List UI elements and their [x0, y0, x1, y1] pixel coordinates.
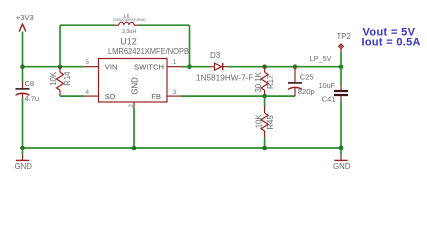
svg-text:R17: R17: [266, 75, 275, 89]
wire: output net y=66.5 from diode to right: [228, 66, 342, 68]
svg-text:4.7u: 4.7u: [25, 94, 40, 103]
label 10K value R14: [49, 71, 58, 86]
svg-text:C41: C41: [322, 94, 336, 103]
node junction at (60,66.5): [58, 64, 63, 69]
wire: C41 to ground rail: [340, 101, 342, 148]
pin GND stub pin 2: [133, 102, 135, 108]
wire: left vertical below C8 to ground rail: [22, 99, 24, 149]
svg-text:1: 1: [173, 59, 177, 66]
capacitor C25: [288, 67, 302, 96]
svg-text:R14: R14: [63, 71, 72, 86]
svg-text:C25: C25: [300, 73, 314, 82]
node junction at (264.6,96): [262, 94, 267, 99]
wire: vertical x=190 from top net to switch node: [189, 25, 191, 66]
svg-text:10K: 10K: [49, 71, 58, 86]
wire: ground rail y=148: [23, 147, 342, 149]
wire: output node down to C41: [340, 67, 342, 86]
resistor R17: [261, 67, 268, 96]
node junction at (134,148): [132, 146, 137, 151]
node junction at (264.6,66.5): [262, 64, 267, 69]
node junction at (22.5,148): [20, 146, 25, 151]
label R14: [63, 71, 72, 86]
svg-text:FB: FB: [151, 92, 161, 101]
pin VIN stub pin 5: [83, 66, 98, 68]
wire: switch node to junction: [181, 66, 210, 68]
svg-text:3: 3: [173, 89, 177, 96]
svg-text:3.3uH: 3.3uH: [122, 29, 136, 35]
label 10K value R45: [255, 114, 264, 129]
capacitor C41: [334, 86, 348, 102]
svg-text:5: 5: [85, 59, 89, 66]
wire: VIN net horizontal y=66.5: [23, 66, 84, 68]
node junction at (341,66.5): [339, 64, 344, 69]
wire: vertical x=60 from top wire to VIN net: [59, 25, 61, 66]
svg-text:LMR62421XMFE/NOPB: LMR62421XMFE/NOPB: [108, 47, 189, 56]
svg-text:SWITCH: SWITCH: [134, 62, 164, 71]
label 30.1K value R17: [254, 71, 263, 92]
svg-text:R45: R45: [266, 115, 275, 130]
pin FB stub pin 3: [167, 95, 182, 97]
svg-text:VIN: VIN: [105, 62, 118, 71]
wire: SD net y=96: [60, 95, 84, 97]
svg-text:TP2: TP2: [337, 32, 351, 41]
resistor R14: [57, 67, 64, 96]
svg-text:GND: GND: [333, 162, 351, 171]
wire: top net y=24 left part to inductor: [60, 24, 115, 26]
svg-text:Iout = 0.5A: Iout = 0.5A: [362, 37, 421, 49]
pin SD stub pin 4: [83, 95, 98, 97]
wire: IC ground vertical x=134: [133, 108, 135, 149]
svg-text:820p: 820p: [298, 87, 315, 96]
node junction at (295,66.5): [293, 64, 298, 69]
node junction at (22.5,66.5): [20, 64, 25, 69]
svg-text:LP_5V: LP_5V: [310, 54, 332, 63]
test point TP2: [339, 44, 344, 52]
svg-text:1N5819HW-7-F: 1N5819HW-7-F: [196, 73, 254, 82]
diode D3: [210, 63, 228, 70]
inductor L6: [115, 22, 139, 25]
label R17: [266, 75, 275, 89]
wire: top net y=24 right part: [139, 24, 190, 26]
svg-text:2: 2: [128, 104, 135, 108]
svg-text:C8: C8: [25, 79, 35, 88]
svg-text:4: 4: [85, 89, 89, 96]
node junction at (264.6,148): [262, 146, 267, 151]
supply symbol +3V3 arrow: [19, 24, 26, 32]
resistor R45: [261, 96, 268, 148]
op-amp U12 IC body: [99, 59, 168, 103]
label R45: [266, 115, 275, 130]
pin name GND rotated: [130, 77, 139, 95]
svg-text:10uF: 10uF: [319, 81, 336, 90]
wire: FB net y=96: [181, 95, 295, 97]
svg-text:GND: GND: [130, 77, 139, 95]
node junction at (341,148): [339, 146, 344, 151]
svg-text:10K: 10K: [255, 114, 264, 129]
capacitor C8: [16, 83, 30, 99]
svg-text:U12: U12: [120, 37, 137, 47]
ground symbol right: [334, 148, 347, 160]
svg-text:CDRH2D14NP/NP-3R3NC: CDRH2D14NP/NP-3R3NC: [113, 18, 146, 22]
node junction at (190,66.5): [187, 64, 192, 69]
svg-text:+3V3: +3V3: [16, 13, 34, 22]
wire: TP2 to output net: [340, 52, 342, 67]
svg-text:30.1K: 30.1K: [254, 71, 263, 92]
svg-text:D3: D3: [210, 51, 221, 60]
svg-text:GND: GND: [15, 162, 33, 171]
pin SWITCH stub pin 1: [167, 66, 182, 68]
pin number 2 rotated: [128, 104, 135, 108]
svg-text:SD: SD: [105, 92, 116, 101]
ground symbol left: [16, 148, 29, 160]
wire: +3V3 vertical rail x=22.5: [22, 32, 24, 83]
